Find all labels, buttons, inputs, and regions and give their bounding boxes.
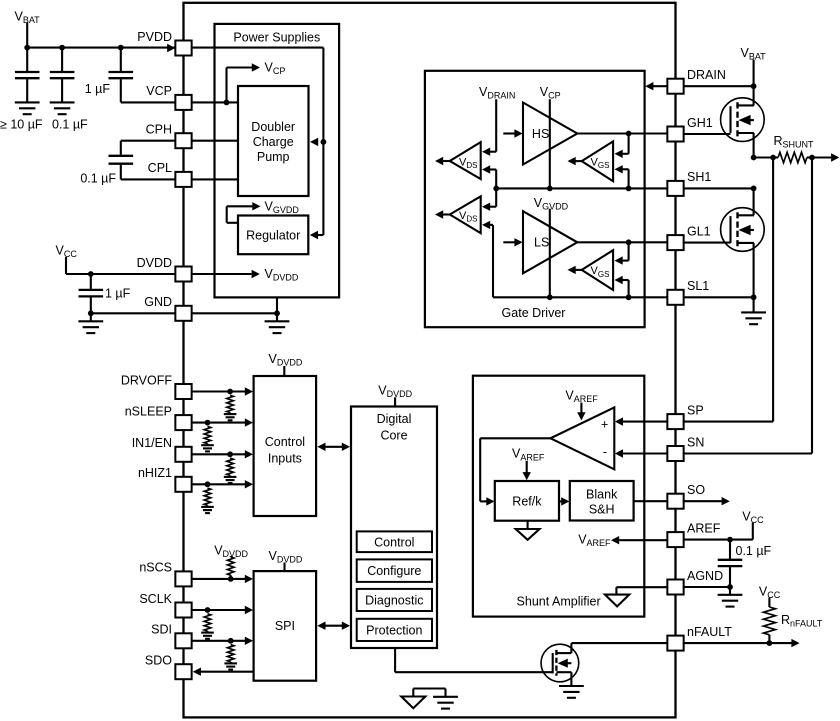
- wire Q1 source down: [753, 133, 755, 158]
- wire VDS2 output arrow: [435, 210, 450, 218]
- pin DRAIN: [667, 68, 726, 94]
- pin IN1/EN: [132, 436, 192, 462]
- ground below C1: [15, 102, 40, 114]
- wire VCP through HS to SH1 bus: [549, 99, 551, 188]
- wire AREF external: [684, 523, 753, 540]
- node VBAT-C2 junction: [59, 45, 65, 51]
- pin nSCS: [139, 561, 191, 587]
- svg-text:0.1 µF: 0.1 µF: [736, 544, 772, 558]
- capacitor C6 0.1uF (AREF): [718, 540, 743, 587]
- label VAREF above op-amp: [565, 388, 598, 404]
- ref/k box U-REFK: [495, 481, 559, 521]
- shunt amplifier block box: [473, 376, 644, 617]
- net VCC at AREF: [742, 510, 764, 526]
- wire SP into op-amp plus: [615, 417, 668, 425]
- svg-text:Diagnostic: Diagnostic: [365, 594, 423, 608]
- label Digital Core: [377, 412, 412, 443]
- svg-text:SPI: SPI: [275, 619, 295, 633]
- resistor RnFAULT pullup: [763, 598, 775, 644]
- label SPI: [275, 619, 295, 633]
- pin AGND: [667, 569, 723, 595]
- svg-text:Core: Core: [380, 429, 407, 443]
- op-amp HS gate drive U-HS: [523, 103, 577, 165]
- comparator VGS low-side U-VGS2: [582, 250, 613, 290]
- wire power supplies ground stub: [276, 297, 278, 313]
- signal ground at AGND: [605, 595, 629, 607]
- ground below Q3 source: [559, 672, 584, 698]
- wire SH1 to phase node: [684, 187, 754, 189]
- svg-text:S&H: S&H: [589, 503, 615, 517]
- node nSCS pullup junction: [228, 576, 234, 582]
- capacitor C3 1uF (PVDD-VCP): [109, 48, 134, 103]
- wire CPH pin to doubler: [192, 140, 238, 142]
- pin SDI: [151, 623, 191, 649]
- wire VGVDD through LS to SL1 bus: [549, 209, 551, 297]
- svg-text:1 µF: 1 µF: [105, 287, 131, 301]
- node VBAT-C3 junction: [118, 45, 124, 51]
- svg-text:nSLEEP: nSLEEP: [125, 404, 172, 418]
- comparator VGS high-side U-VGS1: [582, 141, 613, 181]
- wire Q2 source down: [753, 243, 755, 297]
- wire SN sense line: [684, 158, 812, 454]
- wire PVDD feed into power supplies: [192, 48, 324, 235]
- svg-text:DRAIN: DRAIN: [687, 68, 726, 82]
- capacitor C5 1uF (DVDD): [79, 274, 104, 313]
- svg-text:Configure: Configure: [367, 564, 421, 578]
- wire DRVOFF to control inputs: [192, 387, 253, 395]
- node SH1 phase junction: [751, 186, 757, 192]
- wire VCC to DVDD pin: [66, 273, 175, 275]
- svg-text:SN: SN: [687, 435, 704, 449]
- transistor Q2 low-side NMOS: [721, 208, 765, 252]
- label VAREF at AREF: [578, 533, 611, 549]
- wire GND pin to ground: [192, 312, 277, 314]
- pin VCP: [146, 84, 191, 110]
- wire VDS2 input from SH1: [482, 188, 496, 211]
- wire DRAIN to VBAT: [684, 85, 754, 87]
- pin DRVOFF: [121, 373, 192, 399]
- capacitor C2 0.1uF: [50, 48, 75, 103]
- wire DRAIN arrow into gate driver: [645, 82, 667, 90]
- net VGVDD output arrow: [227, 202, 261, 223]
- wire IN1/EN to control inputs: [192, 450, 253, 458]
- configure sub-box: [357, 559, 432, 582]
- gate driver block box: [425, 71, 645, 327]
- pin SP: [667, 403, 703, 429]
- svg-text:SH1: SH1: [687, 170, 711, 184]
- ground nSLEEP pulldown: [201, 444, 214, 452]
- pin nFAULT: [667, 625, 732, 651]
- wire control inputs to digital core (bidirectional): [317, 443, 350, 451]
- label VDVDD above digital core: [378, 383, 412, 399]
- svg-text:AREF: AREF: [687, 521, 721, 535]
- node SL1-VGS2 junction: [626, 294, 632, 300]
- node charge pump feed junction: [321, 139, 327, 145]
- net VCC (left supply label): [56, 244, 78, 275]
- pin GH1: [667, 116, 712, 142]
- label RnFAULT: [781, 613, 823, 629]
- svg-text:nSCS: nSCS: [139, 561, 172, 575]
- pin DVDD: [137, 256, 192, 282]
- wire SCLK to SPI: [192, 606, 253, 614]
- wire VDS2 input from SL1: [482, 221, 493, 298]
- node SL1-VGVDD junction: [547, 294, 553, 300]
- pin SO: [667, 483, 705, 509]
- node IN1/EN pulldown junction: [227, 451, 233, 457]
- resistor nSCS pullup: [227, 556, 234, 579]
- chassis ground at tie: [433, 697, 458, 709]
- wire SL1 bus: [493, 296, 667, 298]
- wire AGND external: [684, 586, 730, 588]
- op-amp shunt amplifier U-SA: [551, 407, 615, 469]
- power supplies block box: [215, 24, 340, 298]
- wire GL1 to Q2 gate: [684, 242, 731, 244]
- ground DRVOFF pulldown: [224, 413, 237, 421]
- comparator VDS high-side U-VDS1: [450, 142, 481, 179]
- pin GND: [144, 295, 191, 321]
- signal ground at tie: [401, 697, 425, 709]
- wire nFAULT output: [684, 639, 800, 647]
- svg-text:Protection: Protection: [366, 623, 422, 637]
- svg-text:LS: LS: [534, 236, 549, 250]
- value label 1uF: [85, 82, 111, 96]
- node nSLEEP pulldown junction: [205, 420, 211, 426]
- wire VDS1 input from SH1: [482, 165, 496, 188]
- node AGND cap junction: [727, 584, 733, 590]
- svg-text:Power Supplies: Power Supplies: [233, 31, 320, 45]
- label VAREF above Ref/k: [512, 447, 545, 463]
- wire VBAT rail to PVDD: [27, 44, 175, 52]
- node SH1 bus left junction: [493, 186, 499, 192]
- wire VBAT to Q1 drain: [753, 86, 755, 105]
- svg-text:SO: SO: [687, 483, 705, 497]
- svg-text:CPL: CPL: [148, 161, 172, 175]
- svg-text:SDO: SDO: [145, 654, 172, 668]
- wire SP sense line: [684, 158, 773, 422]
- capacitor C4 0.1uF (CPH-CPL): [109, 156, 134, 164]
- svg-text:nFAULT: nFAULT: [687, 625, 732, 639]
- transistor Q1 high-side NMOS: [721, 98, 765, 142]
- doubler charge pump box U-CP: [238, 86, 309, 196]
- label Control: [374, 535, 414, 549]
- wire SPI to digital core (bidirectional): [317, 622, 350, 630]
- resistor DRVOFF pulldown: [227, 395, 234, 412]
- label Protection: [366, 623, 422, 637]
- control inputs block box: [254, 376, 317, 516]
- wire VDS1 input from VDRAIN: [482, 148, 496, 156]
- ground below C5: [78, 313, 103, 333]
- label Ref/k: [512, 495, 542, 509]
- node SH1-VGS1 junction: [626, 186, 632, 192]
- label Diagnostic: [365, 594, 423, 608]
- ground nHIZ1 pulldown: [201, 505, 214, 513]
- svg-text:VCP: VCP: [146, 84, 172, 98]
- wire CPL pin to doubler: [192, 178, 238, 180]
- pin GL1: [667, 224, 710, 250]
- node nHIZ1 pulldown junction: [205, 481, 211, 487]
- node GL1-VGS2 junction: [626, 239, 632, 245]
- resistor RSHUNT: [778, 152, 807, 162]
- value label 0.1uF: [80, 172, 116, 186]
- svg-text:DVDD: DVDD: [137, 256, 172, 270]
- svg-text:SDI: SDI: [151, 623, 172, 637]
- node SL1 source junction: [751, 294, 757, 300]
- op-amp LS gate drive U-LS: [523, 211, 577, 273]
- wire VGS1 output arrow: [568, 157, 582, 165]
- wire input arrow into HS: [503, 129, 522, 137]
- label VGVDD: [265, 199, 300, 215]
- regulator box U-REG: [238, 216, 308, 255]
- wire nSLEEP to control inputs: [192, 418, 253, 426]
- wire VDVDD tick SPI: [283, 563, 285, 572]
- svg-text:Regulator: Regulator: [246, 229, 300, 243]
- wire VDRAIN down: [495, 99, 497, 151]
- svg-text:≥ 10 µF: ≥ 10 µF: [0, 118, 43, 132]
- protection sub-box: [357, 619, 432, 641]
- label Configure: [367, 564, 421, 578]
- wire nSCS to SPI: [192, 575, 253, 583]
- IC boundary box: [184, 3, 676, 718]
- capacitor C1 >=10uF: [15, 48, 40, 103]
- node SH1-VCP junction: [547, 186, 553, 192]
- svg-text:0.1 µF: 0.1 µF: [80, 172, 116, 186]
- wire CPH pin to C4: [121, 141, 176, 155]
- node AREF cap junction: [727, 537, 733, 543]
- net VCC at RnFAULT: [759, 584, 781, 600]
- svg-text:GH1: GH1: [687, 116, 713, 130]
- wire phase to Q2 drain: [753, 188, 755, 215]
- pin PVDD: [137, 30, 191, 56]
- net VBAT (top-left supply label): [15, 10, 41, 48]
- svg-text:Gate Driver: Gate Driver: [502, 306, 566, 320]
- svg-text:Blank: Blank: [586, 488, 618, 502]
- wire VCP pin to doubler: [192, 101, 238, 103]
- wire VGS1 input from GH1: [615, 134, 629, 159]
- node GND-C5 junction: [88, 310, 94, 316]
- wire shunt node: [754, 156, 779, 158]
- wire VGS1 input from SH1: [615, 165, 629, 188]
- wire VAREF arrow into Ref/k: [523, 461, 531, 480]
- wire phase output arrow: [807, 153, 839, 161]
- node VBAT-C1 junction: [24, 45, 30, 51]
- node VBAT-DRAIN junction: [751, 83, 757, 89]
- label VDVDD above SPI: [269, 549, 303, 565]
- svg-text:0.1 µF: 0.1 µF: [52, 118, 88, 132]
- wire SDO from SPI: [193, 668, 254, 676]
- wire op-amp output to Ref/k: [480, 438, 550, 505]
- pin CPL: [148, 161, 192, 187]
- wire VAREF feed from AREF pin: [611, 536, 667, 544]
- pin nSLEEP: [125, 404, 192, 430]
- pin SL1: [667, 279, 709, 305]
- wire SDI to SPI: [192, 637, 253, 645]
- signal-chassis ground tie: [413, 689, 445, 697]
- ground IN1/EN pulldown: [224, 475, 237, 483]
- svg-text:-: -: [603, 445, 607, 459]
- label VCP above HS: [540, 85, 561, 101]
- svg-text:Inputs: Inputs: [268, 451, 302, 465]
- wire AGND to signal ground: [616, 587, 667, 594]
- net VDVDD output arrow: [192, 270, 260, 278]
- wire VGS2 input from SL1: [615, 276, 629, 298]
- pin SDO: [145, 654, 192, 680]
- wire VGS2 input from GL1: [615, 242, 629, 264]
- wire SO output arrow: [684, 497, 730, 505]
- label Power Supplies: [233, 31, 320, 45]
- value label >=10uF: [0, 118, 43, 132]
- svg-text:PVDD: PVDD: [137, 30, 172, 44]
- wire VDVDD tick control inputs: [283, 366, 285, 376]
- signal ground below Ref/k: [516, 521, 540, 540]
- wire input arrow into LS: [503, 238, 522, 246]
- wire nHIZ1 to control inputs: [192, 480, 253, 488]
- node DRVOFF pulldown junction: [227, 389, 233, 395]
- ground SCLK pulldown: [201, 631, 214, 639]
- net VBAT (right supply label): [741, 46, 767, 86]
- svg-text:DRVOFF: DRVOFF: [121, 373, 173, 387]
- diagnostic sub-box: [357, 589, 432, 611]
- comparator VDS low-side U-VDS2: [450, 196, 481, 233]
- ground SDI pulldown: [224, 662, 237, 670]
- svg-text:Digital: Digital: [377, 412, 412, 426]
- wire Q3 drain to nFAULT pin: [571, 643, 667, 653]
- label VDVDD: [265, 267, 299, 283]
- transistor Q3 fault NMOS: [541, 644, 579, 682]
- ground below C2: [50, 102, 75, 114]
- node RSHUNT right junction: [809, 155, 815, 161]
- node GND junction: [274, 310, 280, 316]
- wire SN into op-amp minus: [615, 449, 668, 457]
- wire SH1 bus: [496, 187, 667, 189]
- node Q1 source junction: [751, 155, 757, 161]
- svg-text:Ref/k: Ref/k: [512, 495, 542, 509]
- svg-text:AGND: AGND: [687, 569, 723, 583]
- node nFAULT pullup junction: [767, 640, 773, 646]
- label VDVDD above control inputs: [269, 352, 303, 368]
- wire C4 to CPL pin: [121, 165, 176, 180]
- svg-text:nHIZ1: nHIZ1: [138, 466, 172, 480]
- svg-text:GL1: GL1: [687, 224, 711, 238]
- wire C5 to GND pin: [91, 312, 176, 314]
- label Blank S&H: [586, 488, 618, 517]
- node GH1-VGS1 junction: [626, 131, 632, 137]
- label Control Inputs: [265, 435, 305, 466]
- pin nHIZ1: [138, 466, 192, 492]
- svg-text:Control: Control: [265, 435, 305, 449]
- value label 0.1uF AREF: [736, 544, 772, 558]
- wire VAREF arrow into op-amp: [577, 403, 585, 421]
- pin SCLK: [139, 592, 191, 618]
- blank sample-hold box U-BSH: [570, 481, 634, 521]
- svg-text:1 µF: 1 µF: [85, 82, 111, 96]
- value label 0.1uF: [52, 118, 88, 132]
- net VCP output arrow: [227, 63, 261, 102]
- control sub-box: [357, 531, 432, 552]
- node RSHUNT left junction: [770, 155, 776, 161]
- label Regulator: [246, 229, 300, 243]
- resistor IN1/EN pulldown: [227, 458, 234, 475]
- resistor nHIZ1 pulldown: [204, 488, 211, 505]
- resistor nSLEEP pulldown: [204, 426, 211, 443]
- ground below Q2 source: [741, 297, 766, 324]
- wire GL1 from LS output: [577, 241, 667, 243]
- label VCP: [265, 61, 286, 77]
- wire VDVDD tick digital core: [394, 397, 396, 406]
- label Gate Driver: [502, 306, 566, 320]
- wire digital core to Q3 gate: [395, 648, 553, 672]
- node SCLK pulldown junction: [205, 607, 211, 613]
- svg-text:SCLK: SCLK: [139, 592, 172, 606]
- ground below AGND: [718, 587, 743, 607]
- pin CPH: [146, 123, 192, 149]
- wire VGS2 output arrow: [568, 266, 582, 274]
- wire arrow into doubler right side: [310, 138, 318, 146]
- svg-text:SL1: SL1: [687, 279, 709, 293]
- svg-text:Control: Control: [374, 535, 414, 549]
- label Doubler Charge Pump: [251, 120, 295, 164]
- pin AREF: [667, 521, 720, 547]
- label Shunt Amplifier: [517, 595, 601, 609]
- svg-text:GND: GND: [144, 295, 172, 309]
- label VDVDD nSCS pullup: [214, 544, 248, 560]
- svg-text:Shunt Amplifier: Shunt Amplifier: [517, 595, 601, 609]
- ground below power supplies: [265, 313, 290, 333]
- svg-text:CPH: CPH: [146, 123, 172, 137]
- resistor SCLK pulldown: [204, 614, 211, 631]
- node SDI pulldown junction: [228, 638, 234, 644]
- svg-text:+: +: [601, 418, 608, 432]
- svg-text:Doubler: Doubler: [251, 120, 295, 134]
- digital core block box: [351, 407, 437, 649]
- svg-text:Pump: Pump: [257, 150, 290, 164]
- value label 1uF: [105, 287, 131, 301]
- wire VDS1 output arrow: [435, 157, 450, 165]
- svg-text:SP: SP: [687, 403, 704, 417]
- wire SL1 to Q2 source: [684, 296, 754, 298]
- node DVDD-C5 junction: [88, 271, 94, 277]
- label VGVDD above LS: [534, 196, 569, 212]
- pin SN: [667, 435, 704, 461]
- label VDRAIN: [479, 85, 515, 101]
- svg-text:IN1/EN: IN1/EN: [132, 436, 172, 450]
- label RSHUNT: [774, 134, 815, 150]
- wire Ref/k to Blank S&H arrow: [559, 497, 569, 505]
- wire GH1 to Q1 gate: [684, 133, 731, 135]
- svg-text:HS: HS: [532, 127, 549, 141]
- resistor SDI pulldown: [227, 645, 234, 662]
- wire C3 to VCP pin: [121, 101, 176, 103]
- wire GH1 from HS output: [577, 132, 667, 134]
- wire Blank S&H to SO pin: [634, 500, 668, 502]
- node VCP junction: [224, 100, 230, 106]
- spi block box: [254, 571, 317, 681]
- wire arrow into regulator right side: [310, 231, 324, 239]
- pin SH1: [667, 170, 711, 196]
- svg-text:Charge: Charge: [253, 135, 294, 149]
